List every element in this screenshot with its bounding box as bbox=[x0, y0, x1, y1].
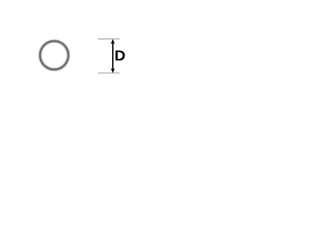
svg-text:D: D bbox=[115, 47, 126, 64]
bottom extension line bbox=[98, 72, 120, 74]
background bbox=[0, 0, 126, 110]
arrowhead down bbox=[111, 69, 115, 73]
dimension line D (vertical double-headed arrow) bbox=[111, 39, 115, 72]
circle (disk outline) bbox=[40, 41, 68, 69]
top extension line bbox=[98, 38, 120, 40]
arrowhead up bbox=[111, 39, 115, 43]
